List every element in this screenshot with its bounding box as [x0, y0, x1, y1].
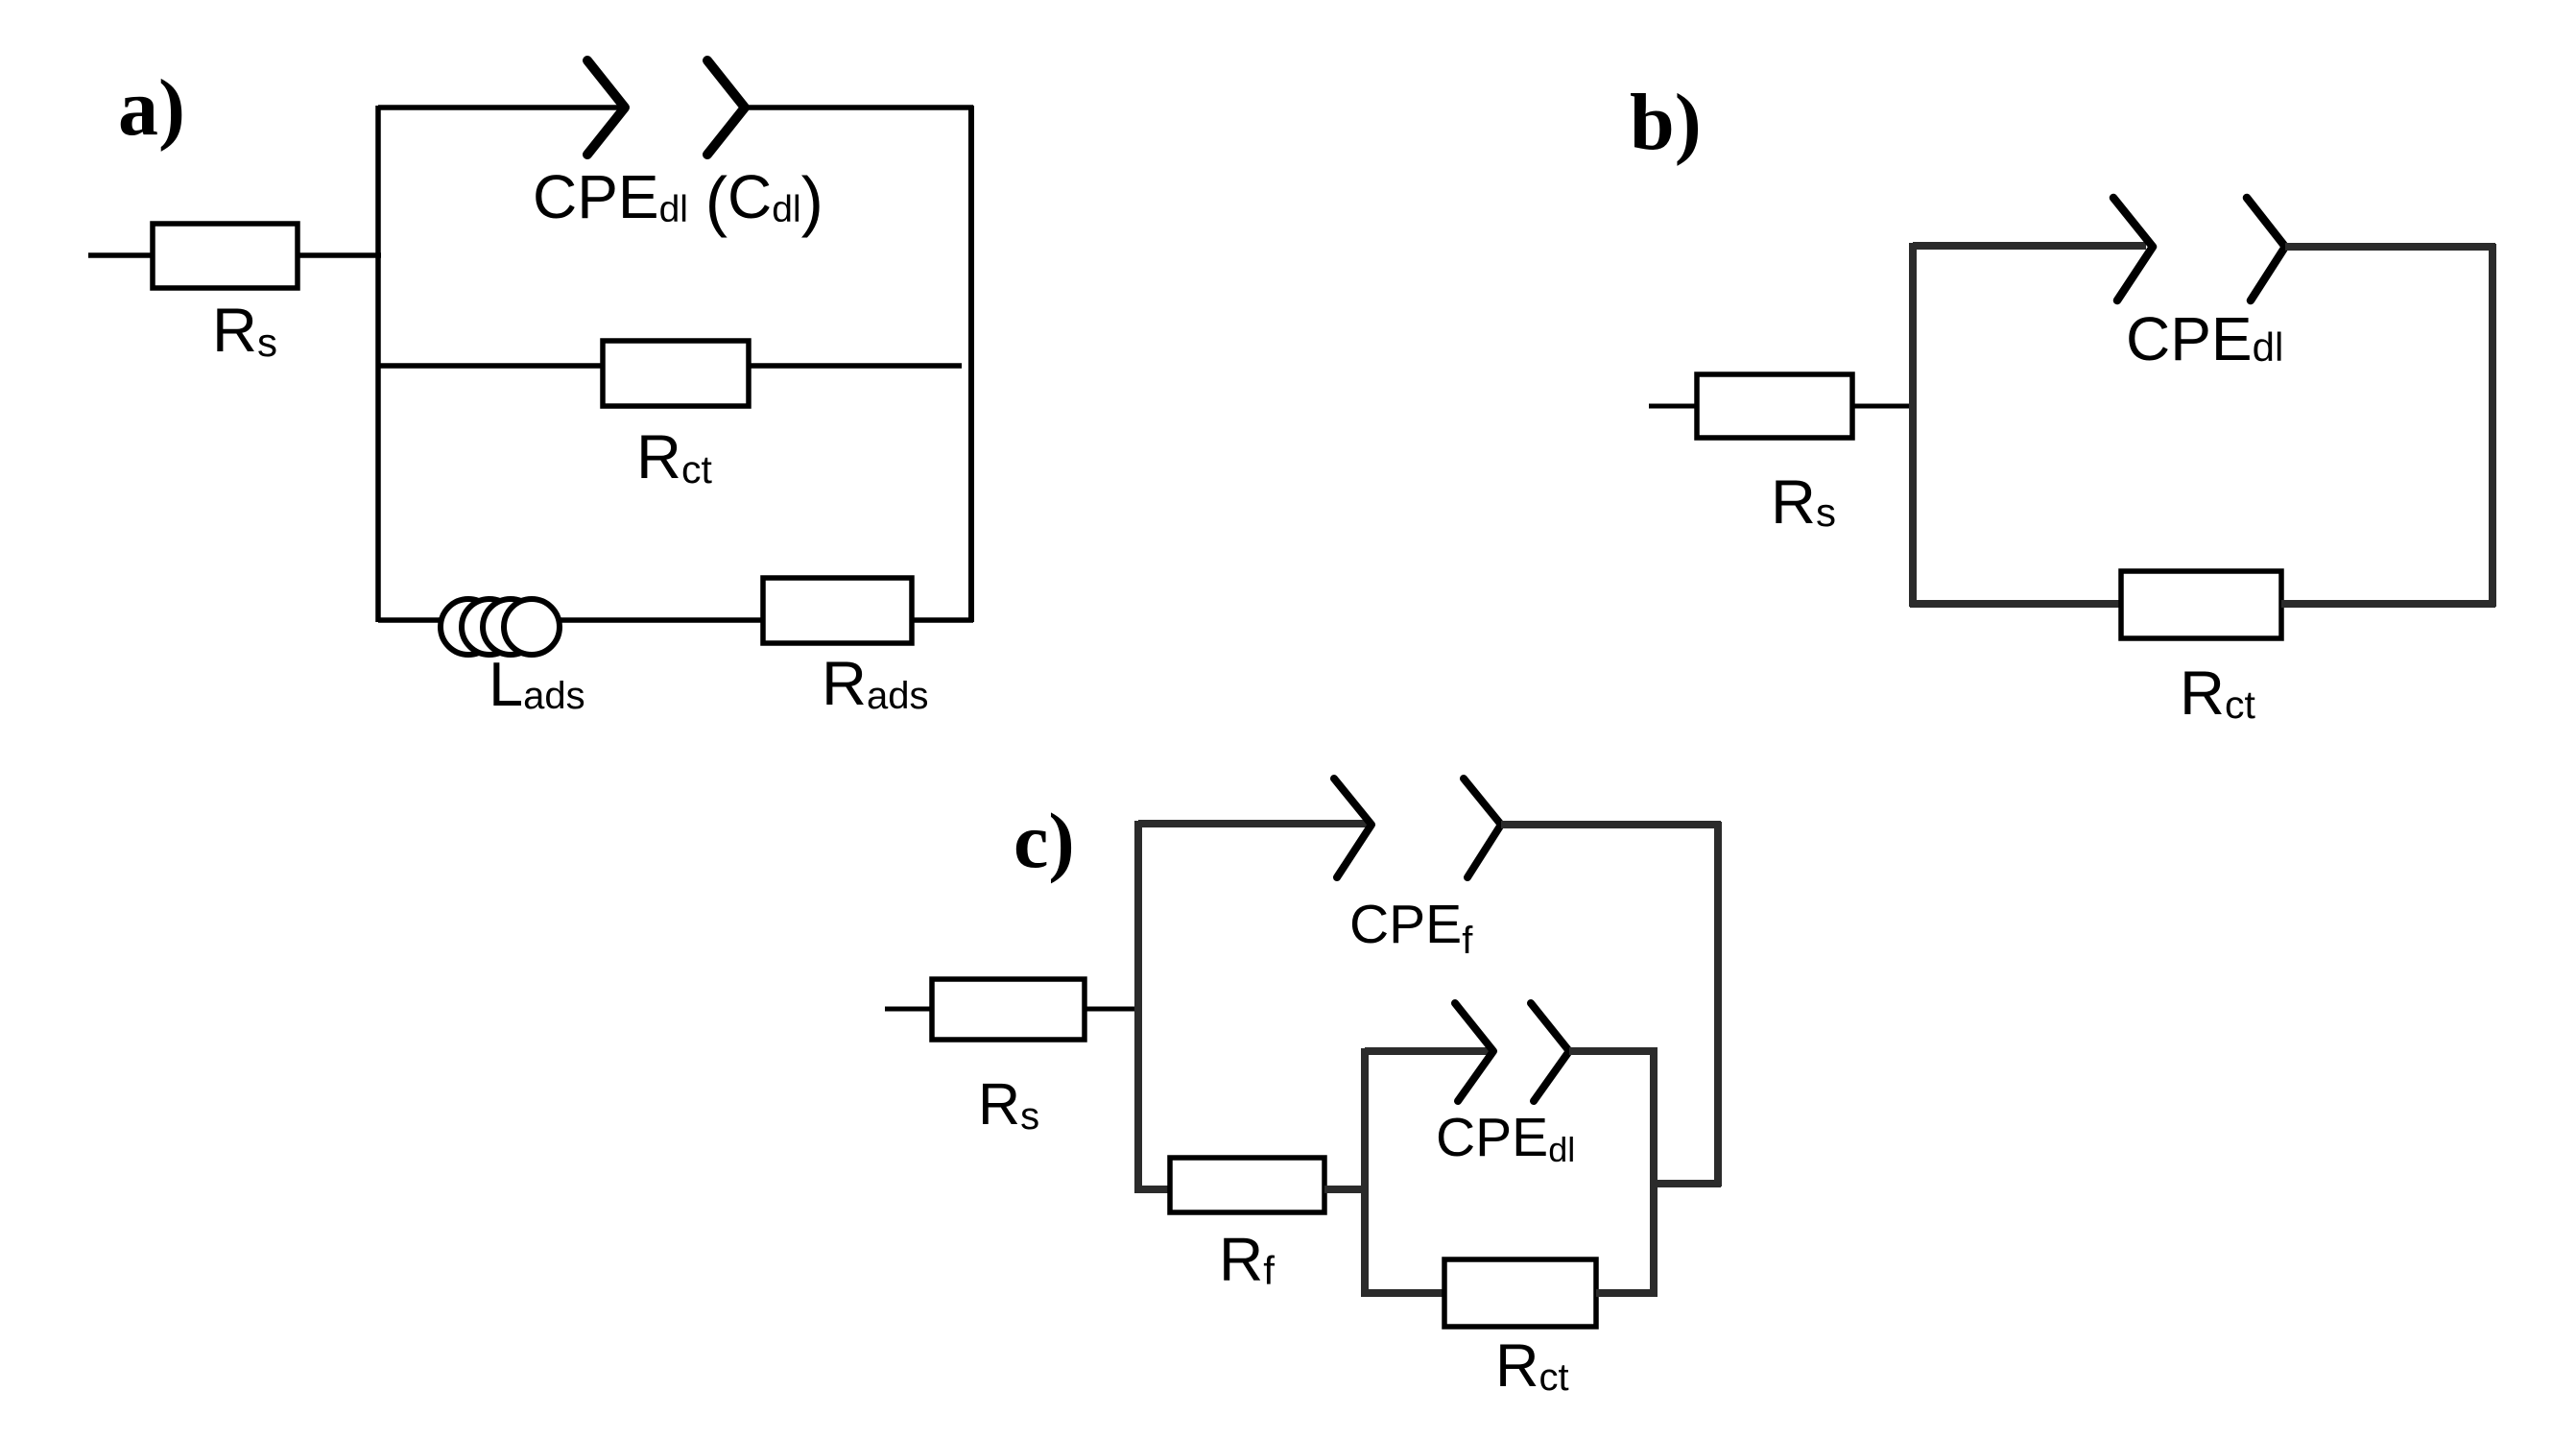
wire input lead (a) [88, 252, 152, 258]
wire top branch right (b) [2285, 243, 2495, 251]
resistor Rf (c) [1170, 1158, 1324, 1212]
CPE CPEf chevron 2 (c) [1464, 779, 1501, 877]
wire right vertical bus (b) [2489, 244, 2496, 607]
node left vertical bus (b) [1909, 243, 1917, 607]
svg-text:c): c) [1014, 797, 1075, 884]
resistor Rct (b) [2121, 571, 2281, 638]
wire right vertical bus (a) [968, 106, 974, 622]
resistor Rct (c) [1444, 1259, 1596, 1327]
wire input lead (c) [885, 1007, 932, 1012]
resistor Rs (a) [153, 224, 298, 288]
wire inner top branch left (c) [1365, 1047, 1491, 1055]
node left vertical bus (a) [375, 106, 381, 622]
wire inner bottom branch right (c) [1596, 1289, 1658, 1297]
wire Rf to inner node (c) [1324, 1186, 1369, 1193]
resistor Rads (a) [763, 578, 912, 643]
svg-text:b): b) [1630, 78, 1702, 167]
wire inner bottom branch left (c) [1365, 1289, 1444, 1297]
wire inner top branch right (c) [1569, 1047, 1658, 1055]
wire middle branch left (a) [378, 363, 603, 369]
wire middle branch right (a) [749, 363, 962, 369]
CPE CPEdl chevron 1 (b) [2113, 198, 2153, 300]
wire outer top branch left (c) [1138, 820, 1367, 827]
wire top branch left (a) [378, 105, 623, 110]
wire Rs to node (b) [1852, 404, 1916, 409]
resistor Rct (a) [603, 341, 749, 406]
inductor Lads (a) [441, 599, 560, 655]
CPE CPEdl chevron 2 (c) [1531, 1003, 1569, 1101]
node inner left vertical bus (c) [1361, 1048, 1369, 1297]
CPE CPEdl chevron 2 (a) [707, 60, 745, 155]
wire outer right vertical bus (c) [1714, 822, 1722, 1186]
node outer left vertical bus (c) [1134, 821, 1142, 1193]
CPE CPEdl chevron 1 (a) [587, 60, 625, 155]
resistor Rs (b) [1697, 374, 1852, 438]
CPE CPEdl chevron 2 (b) [2247, 198, 2285, 300]
CPE CPEf chevron 1 (c) [1334, 779, 1371, 877]
wire Rs to node (a) [298, 252, 381, 258]
svg-text:a): a) [118, 63, 185, 153]
wire top branch right (a) [745, 105, 973, 110]
wire outer bottom stub left (c) [1138, 1186, 1170, 1193]
resistor Rs (c) [932, 979, 1085, 1040]
wire inner block to outer right stub (c) [1654, 1180, 1721, 1187]
svg-text:CPEf: CPEf [1349, 894, 1473, 962]
wire top branch left (b) [1913, 242, 2146, 250]
wire inner right vertical bus (c) [1650, 1048, 1658, 1297]
wire bottom branch (a) [378, 617, 973, 623]
wire bottom branch left (b) [1910, 600, 2121, 608]
wire Rs to node (c) [1085, 1007, 1141, 1012]
wire bottom branch right (b) [2281, 600, 2495, 608]
wire outer top branch right (c) [1501, 821, 1721, 828]
wire input lead (b) [1649, 404, 1697, 409]
CPE CPEdl chevron 1 (c) [1455, 1003, 1493, 1101]
